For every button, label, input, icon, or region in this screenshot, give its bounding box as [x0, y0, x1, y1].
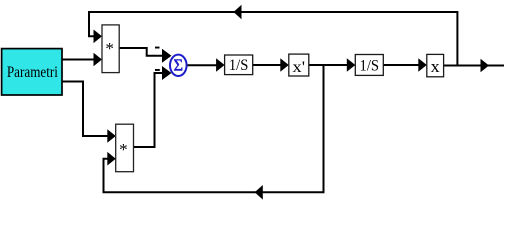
- svg-text:x: x: [431, 57, 441, 76]
- svg-text:x': x': [293, 59, 306, 76]
- svg-text:1/S: 1/S: [229, 57, 249, 74]
- svg-text:1/S: 1/S: [360, 58, 380, 75]
- svg-text:Parametri: Parametri: [7, 64, 59, 81]
- svg-text:*: *: [119, 140, 128, 159]
- svg-text:Σ: Σ: [173, 56, 183, 75]
- svg-text:*: *: [105, 39, 114, 58]
